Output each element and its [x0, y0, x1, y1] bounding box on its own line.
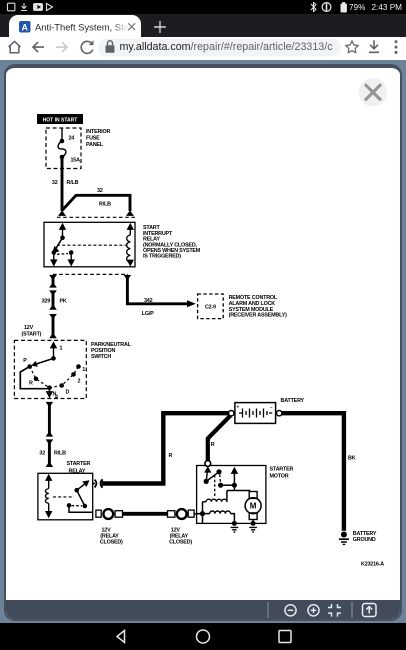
- svg-text:(START): (START): [22, 331, 42, 337]
- svg-text:CLOSED): CLOSED): [100, 540, 123, 546]
- svg-text:R/LB: R/LB: [99, 202, 111, 208]
- svg-text:INTERIOR: INTERIOR: [86, 129, 110, 135]
- svg-text:342: 342: [144, 298, 153, 304]
- svg-text:15A: 15A: [71, 158, 81, 164]
- svg-text:R: R: [29, 380, 33, 386]
- svg-text:BK: BK: [348, 456, 356, 462]
- svg-text:R/LB: R/LB: [67, 180, 79, 186]
- svg-text:R/LB: R/LB: [54, 450, 66, 456]
- svg-text:IS TRIGGERED): IS TRIGGERED): [143, 254, 181, 260]
- svg-text:24: 24: [69, 136, 75, 142]
- svg-text:4: 4: [55, 395, 58, 401]
- svg-text:32: 32: [39, 450, 45, 456]
- svg-text:D: D: [66, 389, 70, 395]
- svg-text:M: M: [250, 502, 257, 511]
- svg-text:12V: 12V: [24, 325, 34, 331]
- svg-text:PK: PK: [60, 299, 67, 305]
- svg-text:STARTER: STARTER: [67, 461, 91, 467]
- svg-text:FUSE: FUSE: [86, 136, 100, 142]
- svg-text:PANEL: PANEL: [86, 142, 104, 148]
- svg-text:2: 2: [78, 378, 81, 384]
- svg-text:R: R: [211, 442, 215, 448]
- svg-text:+: +: [237, 405, 240, 410]
- svg-text:BATTERY: BATTERY: [281, 398, 305, 404]
- svg-text:LG/P: LG/P: [142, 311, 154, 317]
- svg-text:MOTOR: MOTOR: [270, 473, 289, 479]
- svg-text:SWITCH: SWITCH: [91, 354, 111, 360]
- svg-text:HOT IN START: HOT IN START: [43, 118, 78, 124]
- svg-text:32: 32: [97, 188, 103, 194]
- svg-text:1: 1: [60, 346, 63, 352]
- svg-text:R: R: [169, 453, 173, 459]
- svg-text:329: 329: [42, 299, 51, 305]
- svg-text:(RECEIVER ASSEMBLY): (RECEIVER ASSEMBLY): [229, 313, 288, 319]
- svg-text:P: P: [23, 358, 27, 364]
- svg-text:C2-9: C2-9: [205, 305, 216, 311]
- svg-text:CLOSED): CLOSED): [169, 540, 192, 546]
- svg-text:GROUND: GROUND: [353, 537, 376, 543]
- svg-text:1: 1: [82, 367, 85, 373]
- svg-text:32: 32: [52, 180, 58, 186]
- svg-text:–: –: [270, 405, 273, 410]
- svg-text:STARTER: STARTER: [270, 466, 294, 472]
- svg-text:K23216-A: K23216-A: [361, 562, 384, 568]
